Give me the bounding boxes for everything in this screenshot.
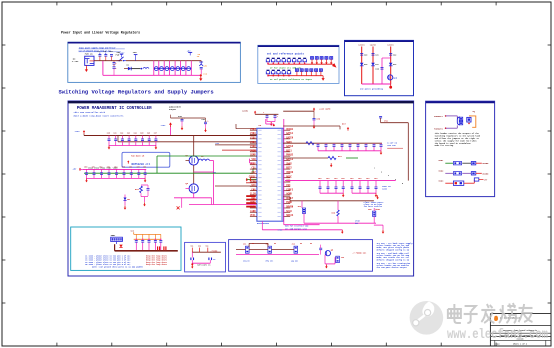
header JS1 [243, 243, 250, 263]
box: soft start border [185, 242, 226, 272]
labels: U2 left pin nets [249, 128, 257, 217]
capacitor C54 [115, 173, 118, 175]
connector J6 [467, 117, 471, 124]
svg-text:10u: 10u [341, 177, 344, 180]
svg-text:CSREF: CSREF [249, 175, 257, 178]
box: power input section border [68, 42, 241, 82]
labels: bank B refs [318, 177, 377, 180]
svg-text:VCCH1: VCCH1 [286, 128, 294, 131]
capacitor C40 [108, 139, 111, 141]
label: JH left note [355, 219, 360, 224]
svg-text:CS2: CS2 [251, 171, 256, 174]
ground: cap bank 1 right [155, 146, 158, 150]
svg-text:DRVON: DRVON [286, 206, 294, 209]
capacitor C98 [375, 187, 378, 189]
inductor L2 phase [198, 155, 209, 161]
zener D5 [124, 195, 131, 206]
wire: bank A bottom rail [318, 150, 381, 152]
wire: short red row [246, 182, 257, 184]
ground: output rail [199, 76, 202, 81]
svg-text:POWER MANAGEMENT IC CONTROLLER: POWER MANAGEMENT IC CONTROLLER [77, 107, 152, 111]
svg-text:C58: C58 [143, 167, 146, 169]
wire: Q1 gate [186, 160, 190, 162]
svg-text:VTT: VTT [251, 184, 256, 187]
svg-text:SCLK: SCLK [286, 210, 292, 213]
power flag: gate drive [340, 127, 349, 131]
svg-text:C42: C42 [120, 131, 123, 134]
wire: gate drive rail [283, 126, 340, 129]
wire: magenta feed above U2 [266, 119, 274, 124]
ground: bank A [380, 151, 383, 155]
wire: phase node [194, 165, 214, 184]
jumper JW3 row [438, 178, 488, 186]
svg-text:2: 2 [381, 171, 382, 173]
labels: NC pins bold [246, 195, 256, 207]
capacitor C20 filter [360, 54, 367, 57]
svg-text:C47: C47 [154, 131, 157, 134]
ground: R10 [143, 202, 146, 206]
svg-text:the LDO pass device output: the LDO pass device output [377, 266, 407, 269]
wire: seq chain maroon [236, 243, 294, 249]
capacitor C30 [178, 115, 186, 126]
diode D1 [124, 64, 131, 71]
capacitor C91 [319, 187, 322, 189]
capacitor CB4 [154, 241, 157, 243]
node: row1 rail end arrow [333, 64, 336, 67]
note: bank A values [387, 142, 403, 149]
wire: ROSC run [283, 157, 328, 159]
svg-text:Softstart Cs: Softstart Cs [197, 263, 210, 266]
svg-text:C46: C46 [147, 131, 150, 134]
note: jumper options text block [377, 242, 414, 269]
svg-text:VCORE: VCORE [482, 172, 489, 175]
capacitor C70 [263, 111, 269, 121]
note: bypass text lines [85, 254, 167, 268]
wire: bottom return rail (magenta) [103, 61, 201, 75]
label: orange +5V [197, 53, 201, 58]
wire: bus 3 (magenta) [80, 168, 146, 170]
wire: header rail magenta [304, 213, 383, 229]
watermark logo disc [410, 301, 444, 335]
wire: sense loop along U2 [284, 119, 320, 225]
header pins HD1-HD5 [311, 57, 333, 65]
capacitor C23 [375, 68, 383, 71]
ground: C30 [181, 126, 184, 130]
resistor R10 vertical [135, 186, 142, 193]
svg-text:12Vin: 12Vin [370, 44, 377, 47]
capacitor C21 filter [372, 54, 379, 57]
svg-text:GATEH: GATEH [286, 136, 294, 139]
jumper JW1 row [438, 159, 489, 165]
ground: bank2 left [85, 178, 88, 182]
svg-text:5: 5 [402, 183, 403, 185]
wire: output rail to IC [189, 204, 257, 206]
wire: cap bank 1 risers [109, 136, 156, 146]
capacitor C1 [98, 50, 102, 61]
svg-text:GATE1: GATE1 [286, 132, 294, 135]
svg-text:C20: C20 [364, 54, 367, 56]
svg-text:GATE3: GATE3 [286, 158, 294, 161]
svg-text:AGND: AGND [286, 193, 292, 196]
svg-text:set and reference points: set and reference points [267, 52, 305, 56]
capacitor C86 [357, 145, 360, 147]
svg-text:VID1: VID1 [250, 141, 256, 144]
capacitor C51 [93, 173, 96, 175]
connector J5 [457, 117, 462, 125]
svg-text:VDRP: VDRP [250, 162, 256, 165]
svg-text:C22: C22 [393, 54, 396, 56]
svg-text:C44: C44 [134, 131, 137, 134]
header JS2 [266, 243, 274, 263]
note: power supply input and filter (blue underlined) [79, 46, 125, 52]
svg-text:keep the loop short: keep the loop short [146, 263, 167, 266]
svg-text:VFB: VFB [251, 158, 256, 161]
wire: pin row 128.7 [236, 124, 257, 129]
ground: SS [191, 265, 193, 269]
label: bottom red note [375, 208, 380, 211]
wire: orange loop [469, 116, 476, 127]
wire: orange feed [134, 232, 161, 239]
capacitor C92 [327, 187, 330, 189]
title block text rows [497, 329, 541, 345]
svg-text:X7R 16V: X7R 16V [387, 144, 396, 147]
labels: pin numbers step [374, 168, 403, 185]
junction dot output [200, 74, 202, 76]
svg-text:10u: 10u [318, 177, 321, 180]
svg-text:BST1: BST1 [286, 149, 292, 152]
svg-text:VCCL: VCCL [250, 214, 256, 217]
wire: connector feed (violet) [446, 116, 458, 128]
node: star ground dot [389, 84, 392, 89]
svg-text:1206: 1206 [382, 187, 388, 190]
svg-text:Switching Voltage Regulators a: Switching Voltage Regulators and Supply … [59, 89, 214, 96]
svg-text:PHASE: PHASE [286, 154, 294, 157]
label: U2 part number [257, 222, 270, 225]
power flag: +5V left [73, 167, 82, 171]
svg-text:pg out: pg out [292, 260, 299, 263]
svg-text:PWROUT2: PWROUT2 [434, 127, 443, 130]
label: orange loop net [472, 110, 475, 113]
label: PWR OUT pin 1 [434, 115, 446, 118]
ground: seq [325, 265, 328, 269]
wire: IC top rail [255, 113, 278, 115]
capacitor bank C6-C12 electrolytic row [154, 67, 192, 71]
wire: jumper row 2 rail [268, 75, 324, 77]
wire: bank A rail [283, 142, 382, 144]
svg-text:C43: C43 [127, 131, 130, 134]
capacitor CB2 [141, 241, 144, 243]
svg-text:C56: C56 [129, 167, 132, 169]
wire: thick return bus [115, 244, 178, 251]
svg-text:NCP5322A ctl: NCP5322A ctl [132, 162, 151, 166]
svg-text:PWM dual ch: PWM dual ch [131, 155, 145, 158]
capacitor C96 [359, 187, 362, 189]
ground: lower run [341, 230, 344, 234]
wire: cap tops rail [171, 115, 206, 123]
label: VCCH net [319, 108, 331, 111]
svg-text:10u: 10u [358, 177, 361, 180]
capacitor C87 [365, 145, 368, 147]
svg-text:VID0: VID0 [250, 145, 256, 148]
resistor R20 [306, 142, 314, 145]
svg-text:PGD: PGD [251, 180, 256, 183]
diode D10 clamp [360, 63, 367, 66]
power flag: +12V rail tap [120, 52, 126, 58]
capacitor C85 hook [379, 116, 388, 122]
zener D2 output [199, 62, 203, 66]
capacitor C46 [148, 139, 151, 141]
wire: feedback green long [84, 169, 257, 173]
note: green note row 1 [270, 66, 302, 69]
svg-text:GATE2: GATE2 [286, 145, 294, 148]
svg-text:VDDIO: VDDIO [286, 171, 294, 174]
wire: main input rail (maroon) [94, 60, 201, 62]
svg-text:C21: C21 [375, 54, 378, 56]
box: bypass recommendation border [71, 227, 181, 270]
svg-text:C41: C41 [114, 131, 117, 134]
wire: vertical right maroon [283, 123, 408, 181]
capacitor C47 [154, 139, 157, 141]
svg-text:SS3: SS3 [206, 246, 209, 248]
label: net name branch 2 [370, 44, 377, 47]
transistor Q10 [388, 75, 398, 80]
ground: C31 [204, 128, 207, 132]
capacitor C95 [351, 187, 354, 189]
svg-text:JP ref points calibrate at inp: JP ref points calibrate at input [270, 78, 313, 81]
wire: pin row 150.1 red [222, 149, 257, 151]
svg-text:mode for testing: mode for testing [435, 144, 454, 147]
svg-text:-> PGOOD out: -> PGOOD out [352, 252, 366, 255]
svg-text:SS2: SS2 [198, 246, 201, 248]
transistor Q5 [325, 248, 334, 255]
label: adjustable note [169, 106, 182, 112]
op-amp U2 PWM controller IC [250, 124, 290, 221]
capacitor CS1 [191, 252, 194, 260]
capacitor C56 [130, 173, 133, 175]
capacitor CB7 red [164, 246, 166, 250]
label: net name branch 1 [358, 44, 365, 47]
watermark chinese characters [448, 303, 533, 323]
svg-text:C45: C45 [140, 131, 143, 134]
label: J1 fuse text [85, 52, 94, 55]
jumper JW2 row [438, 169, 489, 175]
svg-text:C54: C54 [114, 166, 117, 169]
note: subtitle lines [74, 111, 125, 117]
svg-text:C55: C55 [122, 167, 125, 169]
svg-text:PWR JK: PWR JK [85, 52, 94, 55]
capacitor C82 [325, 145, 328, 147]
ground: cap bank 1 left [108, 146, 111, 150]
capacitor C89 [380, 145, 383, 147]
ground: header rail [382, 230, 385, 234]
svg-text:COMP: COMP [250, 154, 256, 157]
svg-text:EN: EN [310, 243, 312, 245]
title block frame [490, 314, 551, 346]
capacitor C81 [317, 145, 320, 147]
svg-text:output: output [169, 108, 177, 111]
svg-text:D12: D12 [393, 64, 396, 66]
box: output connector border [426, 101, 495, 196]
capacitor C93 [335, 187, 338, 189]
watermark url text [447, 328, 548, 343]
title: Switching Voltage Regulators and Supply Jumpers [59, 89, 214, 96]
wire: Q2 gate [186, 188, 190, 190]
wire: comp rail [174, 198, 212, 208]
label: far left VTT [215, 142, 219, 145]
svg-text:+12V GATE: +12V GATE [319, 108, 331, 111]
labels: SS pins [191, 246, 209, 248]
capacitor C22 filter [389, 54, 396, 57]
wire: capacitor bank risers [154, 61, 192, 76]
heading: POWER MANAGEMENT IC CONTROLLER [77, 107, 152, 111]
svg-text:CS1: CS1 [251, 167, 256, 170]
resistor R21 [328, 155, 342, 159]
svg-text:dly set: dly set [266, 260, 274, 263]
jumper row JP1-JP8 [266, 58, 306, 65]
wire: bypass risers [136, 234, 162, 250]
svg-text:seq en: seq en [243, 260, 250, 263]
power flag: VIN bar [133, 51, 138, 61]
svg-text:C51: C51 [92, 167, 95, 169]
svg-text:3: 3 [388, 175, 389, 177]
ground: input jack [85, 67, 88, 72]
svg-text:1: 1 [374, 168, 375, 170]
svg-text:VDD2: VDD2 [438, 169, 444, 172]
capacitor C94 [342, 187, 345, 189]
box: input protection border [345, 40, 414, 95]
header JH1 [298, 201, 306, 223]
svg-text:C50: C50 [84, 167, 87, 169]
wire: branch 4 (magenta) [382, 58, 391, 84]
capacitor CB1 [135, 241, 138, 243]
wire: Q1 drain [193, 136, 195, 156]
svg-text:5VSB: 5VSB [250, 149, 256, 152]
svg-text:Power Input and Linear Voltage: Power Input and Linear Voltage Regulator… [61, 31, 140, 35]
resistor R30 vertical [332, 201, 340, 223]
svg-text:VDD3: VDD3 [438, 179, 444, 182]
svg-text:EN: EN [300, 243, 302, 245]
svg-text:CS3: CS3 [286, 180, 291, 183]
capacitor CS2 [209, 258, 216, 261]
switch SW1 [116, 51, 127, 61]
capacitor C44 [134, 139, 137, 141]
note: star ground label [360, 88, 384, 91]
inductor L1 input [131, 67, 149, 69]
pin names inside U2 [258, 130, 280, 216]
capacitor CB3 [148, 241, 151, 243]
svg-text:LGND: LGND [250, 210, 256, 213]
title block logo [494, 316, 521, 321]
ground: U2 exposed pads [246, 178, 252, 182]
svg-text:12Vin: 12Vin [387, 44, 394, 47]
transistor Q1 high-side [186, 154, 199, 165]
capacitor C52 [100, 173, 103, 175]
svg-text:7-12V: 7-12V [72, 60, 79, 63]
callout: controller part number box [122, 152, 170, 167]
power flag: VCCH [313, 108, 315, 112]
box: set and reference points border [258, 45, 339, 83]
svg-text:PGND: PGND [286, 201, 292, 204]
svg-text:ROSC: ROSC [286, 175, 292, 178]
wire: bank A risers [318, 143, 381, 151]
ground: IC decoupling [270, 122, 273, 126]
svg-text:EN: EN [274, 243, 276, 245]
svg-text:VID2: VID2 [250, 136, 256, 139]
svg-text:BST2: BST2 [286, 167, 292, 170]
capacitor C71 [274, 114, 279, 121]
header pins HD6-HD11 [295, 69, 322, 76]
diode D11 clamp [371, 63, 378, 66]
svg-text:one point grounding: one point grounding [360, 88, 384, 91]
svg-text:12Vdc: 12Vdc [242, 109, 249, 112]
svg-text:www.elecfans.com: www.elecfans.com [447, 328, 548, 343]
capacitor C42 [121, 139, 124, 141]
power flag: 12V above IC [254, 111, 256, 115]
connector JH3 header [111, 234, 123, 241]
header JH2 [368, 207, 377, 216]
wire: bottom bus [362, 83, 391, 85]
wire: pin hook magenta [250, 159, 253, 163]
ground: bank B1 [342, 193, 345, 197]
capacitor C80 [313, 111, 321, 125]
capacitor C43 [128, 139, 131, 141]
svg-text:VID4: VID4 [250, 128, 256, 131]
capacitor C41 [114, 139, 117, 141]
capacitor C50 [85, 173, 88, 175]
wire: jumper row 1 rail [268, 63, 334, 65]
wire: SS rail [192, 250, 221, 253]
svg-text:for best results: for best results [364, 205, 383, 208]
ground: D5 [124, 206, 127, 210]
svg-text:set and margin test: set and margin test [285, 227, 307, 230]
labels: left net names row [88, 167, 118, 170]
wire: Vout sense bus [285, 180, 396, 182]
ground: bank B2 [375, 193, 378, 197]
label: 12Vdc 5A [242, 109, 249, 112]
wire: bank B risers [320, 181, 376, 194]
svg-text:VDD1: VDD1 [438, 159, 444, 162]
svg-text:dual 2-bank step-down Vcore co: dual 2-bank step-down Vcore converters [74, 114, 125, 117]
power flag: 5V bar [187, 49, 192, 55]
wire: bank B bottom rails [320, 192, 376, 194]
labels: seq top nets [252, 243, 312, 245]
wire: short green row [246, 179, 257, 181]
svg-text:->SSOK: ->SSOK [210, 250, 218, 253]
capacitor C97 [367, 187, 370, 189]
diode DB1 [117, 242, 123, 248]
svg-text:CS4: CS4 [286, 184, 291, 187]
header JS4 [336, 256, 345, 263]
ground: top of q [376, 195, 379, 199]
wire: branch risers [362, 47, 391, 85]
power flag: +12V left [75, 130, 86, 134]
note: set and reference points title [267, 52, 305, 56]
capacitor C4 bulk [113, 61, 118, 66]
label: SS caption [197, 263, 210, 266]
wire: VCCH rail [283, 110, 314, 112]
label: far left 5VSB [214, 171, 217, 174]
header JS3 [292, 243, 299, 263]
note: sync note [278, 229, 284, 232]
capacitor C45 [141, 139, 144, 141]
svg-text:+12V: +12V [161, 124, 167, 127]
box: sequencing chain border [229, 240, 373, 272]
svg-text:12Vin: 12Vin [358, 44, 365, 47]
wire: R10 C60 tie [141, 185, 148, 202]
svg-text:CSRF2: CSRF2 [286, 188, 294, 191]
svg-text:D10: D10 [364, 64, 367, 66]
wire: Q2 source down [193, 193, 195, 198]
